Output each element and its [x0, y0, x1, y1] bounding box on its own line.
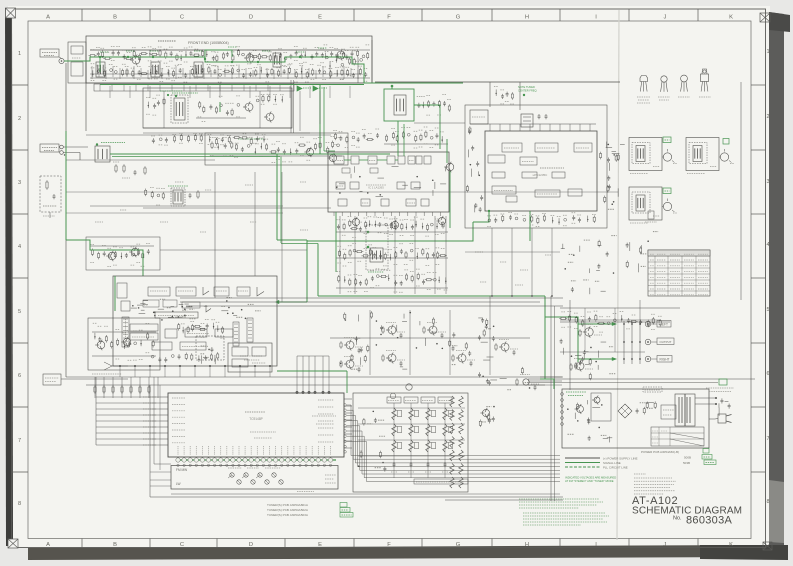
keypad switch S3: [258, 473, 262, 477]
transistor package outline 2SK117: [661, 76, 667, 82]
green line PLL bottom exit: [473, 211, 489, 222]
green drop to power PCB: [540, 317, 545, 379]
right section bias cluster upper: [560, 321, 670, 323]
PLL block row2 a: [492, 172, 505, 178]
phono transistor Q40: [97, 341, 105, 349]
MPX bottom edge connector dots: [119, 365, 121, 367]
components above IC1: [384, 143, 448, 145]
svg-text:LEFT: LEFT: [660, 323, 668, 327]
MPX pin hatch left: [123, 318, 128, 320]
matrix header box col1: [387, 397, 401, 403]
IC1 bottom row block 4: [406, 199, 416, 206]
front end green weave jog: [205, 50, 232, 57]
mains fuse parts: [725, 400, 729, 402]
AF amp transistor Q31: [346, 360, 354, 368]
green marker IF board: [160, 90, 182, 92]
MPX inner block VCO: [176, 287, 196, 296]
IC1 internal wire mesh: [376, 195, 384, 197]
AF field cluster A: [364, 357, 366, 361]
AM IFT transformer dashed: [171, 188, 185, 206]
front end coil L3: [194, 62, 203, 77]
PLL block row2 b: [522, 172, 537, 178]
svg-text:5: 5: [18, 309, 21, 315]
IC1 top row block 2: [351, 156, 359, 164]
svg-text:7: 7: [766, 436, 769, 442]
right vertical wires: [569, 300, 571, 390]
wire front end right drop: [371, 40, 373, 83]
output label OUTPUT: [657, 338, 674, 345]
bridge rectifier D50: [618, 404, 632, 418]
IC1 row2 block a: [342, 168, 350, 173]
svg-text:A: A: [46, 15, 50, 21]
PLL bottom parts row: [488, 219, 491, 222]
MPX buffer box: [215, 329, 233, 337]
IC1 top row block 5: [398, 156, 405, 164]
transistor package label 2SK117: [658, 96, 670, 98]
IC1 mid block c: [397, 182, 405, 189]
output jack left: [645, 321, 651, 327]
scattered annotation smudges mid-left gap: [175, 181, 184, 183]
svg-text:C: C: [180, 15, 184, 21]
corner register mark bottom-right: [763, 542, 772, 550]
wire bottom run to power: [445, 499, 563, 501]
power regulator transistor Q51: [594, 397, 600, 403]
transistor package outline 2SC2240: [681, 75, 688, 82]
keypad switch S2: [244, 473, 248, 477]
MPX internal wiring cluster: [189, 308, 194, 310]
green arrow into MPX right: [279, 301, 307, 303]
feed transistor QM3: [482, 409, 489, 416]
power input cluster: [587, 420, 590, 422]
page fold faint line: [617, 10, 619, 540]
green main signal bus to filters: [110, 153, 335, 155]
keypad right tiny labels: [325, 474, 336, 476]
power PCB variant tag green: [703, 449, 709, 454]
front end component strip lower: [90, 77, 370, 79]
svg-text:E: E: [318, 542, 322, 548]
svg-text:7: 7: [18, 438, 21, 444]
svg-text:1: 1: [18, 51, 21, 57]
svg-text:H: H: [525, 15, 529, 21]
transistor right edge Q15: [446, 163, 454, 171]
IC1 bottom row block 2: [361, 199, 370, 206]
output label LEFT: [657, 321, 671, 328]
crystal X1 box: [521, 114, 533, 127]
notes text block: [634, 473, 646, 475]
detector cluster: [210, 155, 342, 157]
bottom-left resistor bank: [94, 387, 96, 392]
PLL section outer enclosure: [465, 105, 607, 228]
reference divider box: [470, 110, 488, 124]
controller IC4 body: [168, 393, 344, 457]
green under-front-end return line: [100, 84, 364, 86]
IC4 left pin stubs and labels: [160, 396, 168, 398]
svg-text:G: G: [456, 542, 461, 548]
svg-text:FRONT END (1005B004): FRONT END (1005B004): [188, 41, 229, 45]
green feed dot oscillator: [391, 85, 394, 88]
mid bus wires: [180, 297, 563, 299]
local oscillator coil enclosure green: [384, 89, 414, 121]
AF field transistor annotations: [344, 337, 354, 339]
keypad switch S8: [279, 480, 283, 484]
green wire oscillator to PLL: [414, 105, 440, 149]
IC1 top row block 7: [416, 156, 422, 164]
PLL block ref amp: [492, 186, 516, 194]
svg-text:K: K: [729, 15, 733, 21]
svg-text:CENTER FREQ: CENTER FREQ: [518, 89, 537, 93]
lower bus wire 2: [86, 384, 545, 386]
left page-edge shadow: [5, 8, 13, 546]
front end title text: [158, 40, 176, 42]
wire antenna AM to loop coil: [63, 146, 88, 148]
right page-edge shadow: [769, 12, 784, 558]
svg-text:RIGHT: RIGHT: [660, 358, 670, 362]
decoupling capacitor column: [564, 268, 566, 270]
svg-text:F: F: [387, 15, 391, 21]
IC1 top row block 8: [424, 156, 431, 164]
central column parts rows lower: [336, 287, 448, 289]
driver transistor Q9: [131, 248, 139, 256]
left vertical bus wire: [65, 63, 67, 377]
svg-text:NOTE TUNED: NOTE TUNED: [518, 85, 535, 89]
svg-text:3: 3: [766, 179, 769, 185]
semiconductor table: [648, 250, 710, 296]
right section vertical drops: [584, 308, 586, 352]
PLL to bus drop wires: [491, 228, 493, 296]
matrix resistor network R24: [443, 424, 448, 436]
matrix resistor network R34: [443, 440, 448, 452]
IC4 right pin circles: [344, 404, 347, 407]
IC4 interior pin name rows right: [318, 399, 334, 401]
IF component strip B: [196, 117, 246, 119]
front end mixer transistor Q3: [337, 51, 345, 59]
svg-text:No.: No.: [673, 516, 682, 522]
antenna FM terminal label: [40, 49, 59, 57]
front end internal rail 2: [90, 73, 360, 75]
detector sub-circuit enclosure: [205, 133, 348, 165]
green branch drop at C1: [99, 57, 101, 72]
MPX pilot filter bar: [155, 312, 198, 318]
detector transistor Q7: [329, 154, 336, 161]
grid tick marks bottom: [81, 539, 83, 548]
MPX op-amp A2: [257, 287, 264, 296]
matrix resistor network R22: [409, 424, 414, 436]
svg-text:8: 8: [18, 501, 21, 507]
left vertical bus wire 2: [85, 61, 87, 131]
right section rail 2: [560, 319, 660, 321]
green tag K2 lower: [663, 188, 671, 194]
IC4 interior center marks: [250, 431, 276, 433]
IC4 top pin circles: [296, 391, 299, 394]
muting transistor Q37: [523, 379, 529, 385]
green signal line front end row: [64, 57, 340, 62]
svg-text:F: F: [387, 542, 391, 548]
front end tuning gang capacitor C1: [96, 62, 105, 77]
AF amp transistor Q30: [346, 341, 354, 349]
bottom page-edge shadow: [28, 545, 770, 560]
keypad switch S5: [237, 480, 241, 484]
green short vertical in IF board: [219, 102, 221, 112]
matrix resistor network R12: [409, 408, 414, 420]
IC1 green top row links: [344, 159, 351, 161]
IF board bus second line: [86, 134, 331, 136]
svg-text:A: A: [46, 542, 50, 548]
green bus into IC1 top row: [335, 153, 390, 155]
matrix resistor network R11: [392, 408, 397, 420]
keypad switch S6: [251, 480, 255, 484]
MPX op-amp A3: [206, 305, 211, 312]
IC1 row2 block b: [370, 168, 378, 173]
svg-text:FM MW: FM MW: [176, 468, 187, 472]
matrix header box col2: [404, 397, 418, 403]
green connector arrow B: [313, 86, 318, 91]
grid tick marks top: [81, 9, 83, 21]
MPX small box 2: [121, 301, 130, 311]
output jack mid: [645, 339, 651, 345]
svg-text:IC 1 LA1265: IC 1 LA1265: [368, 186, 384, 190]
clock sub-board box: [228, 343, 272, 372]
power transformer T50: [675, 394, 695, 426]
MPX pin hatch right: [234, 323, 238, 325]
svg-text:D: D: [249, 542, 253, 548]
MPX matrix bar 1: [130, 324, 158, 331]
svg-text:LW: LW: [176, 482, 181, 486]
green line into driver stage: [66, 240, 143, 276]
PLL block LPF: [488, 155, 505, 163]
IC4 interior pin name rows left: [172, 397, 185, 399]
IC1 top row block 6: [408, 156, 415, 164]
transistor below IC1 QB: [391, 221, 398, 228]
keypad left feed wires: [153, 377, 155, 464]
transistor package outline 2SC2670: [640, 76, 648, 82]
green signal run to power area: [318, 295, 545, 297]
green drop wires into IC1 top: [397, 121, 399, 156]
green PLL loop top run: [307, 222, 473, 241]
matrix resistor network R14: [443, 408, 448, 420]
central column parts rows mid: [336, 257, 448, 259]
power input green note: [566, 391, 586, 393]
power inner sub-box: [591, 393, 611, 421]
legend line PLL circuit: [565, 466, 600, 468]
MPX op-amp A1: [203, 287, 209, 295]
PLL IC3 body: [485, 131, 597, 211]
keypad top edge small pin circles: [177, 464, 179, 466]
MPX output row box 2: [180, 342, 206, 350]
audio out transistor Q21: [576, 362, 584, 370]
IC4 bottom pin circles green row: [176, 459, 336, 461]
warning text paragraph 2: [523, 512, 605, 514]
corner register mark bottom-left: [8, 539, 18, 548]
transistor package label 2SC2670: [637, 96, 650, 98]
green vertical from antenna bus: [65, 131, 67, 240]
PLL right side components: [612, 153, 620, 155]
matrix resistor network R21: [392, 424, 397, 436]
front end coil L4: [273, 53, 281, 67]
wire front end to IF drops: [219, 83, 221, 98]
matrix row bus wires: [358, 407, 465, 409]
AF field cluster B: [452, 333, 455, 335]
wire front end drops to IF board: [109, 86, 111, 98]
IFT transformer dashed box: [171, 95, 188, 123]
svg-text:500B: 500B: [684, 456, 691, 460]
transistor package label 2SD400: [699, 96, 711, 98]
svg-text:K: K: [729, 542, 733, 548]
svg-text:uPC1235C: uPC1235C: [533, 173, 549, 177]
MPX inner block phase det: [237, 287, 250, 296]
green tag K2 left: [663, 137, 671, 143]
keypad switch S4: [272, 473, 276, 477]
green vertical pair from signal bus: [276, 154, 278, 240]
IFT detail drawing K right: [686, 138, 719, 171]
green power feed: [540, 379, 554, 389]
IF sub-board enclosure: [143, 88, 292, 128]
PLL block prog divider: [520, 157, 537, 165]
svg-text:D: D: [249, 15, 253, 21]
local oscillator coil: [394, 95, 406, 115]
matrix driver transistor QM1: [406, 384, 412, 390]
transistor below IC1 QC: [438, 217, 445, 224]
wires below keypad: [171, 493, 560, 495]
transistor package label 2SC2240: [678, 96, 690, 98]
green PLL loop vertical pair: [306, 240, 308, 302]
grid tick marks left: [12, 84, 29, 86]
discriminator coil: [370, 248, 383, 262]
green dot AM coil: [96, 143, 98, 145]
svg-text:H: H: [525, 542, 529, 548]
wire antenna FM to front end: [64, 60, 86, 62]
svg-text:SIGNAL LINE: SIGNAL LINE: [603, 461, 621, 465]
IF underside parts row: [152, 139, 155, 141]
IF amp transistor Q4: [245, 103, 253, 111]
matrix resistor network R31: [392, 440, 397, 452]
feed parts cluster: [486, 406, 491, 408]
wire staircase bundle IC4 outputs: [347, 405, 560, 456]
phono transistor Q41: [123, 338, 131, 346]
MPX input stage box: [117, 283, 127, 298]
matrix right resistor ladder col B: [459, 396, 464, 407]
voltage selector green tag: [719, 379, 727, 385]
band switch sub-box: [68, 42, 86, 83]
right section rail: [560, 307, 680, 309]
AF amp transistor Q33: [388, 354, 396, 362]
key matrix enclosure: [353, 393, 468, 492]
green jog to PLL loop pair: [277, 239, 307, 241]
green tag K right: [723, 139, 729, 145]
right page-edge lighter lower part: [769, 480, 784, 543]
oscillator trimmer cluster: [417, 104, 420, 106]
svg-text:2: 2: [18, 116, 21, 122]
matrix driver transistor QM2: [390, 393, 396, 399]
IFT coil T1: [174, 98, 185, 120]
voltage selector label: [706, 387, 734, 389]
IC1 mid block d: [411, 182, 420, 189]
green line to right output jack: [578, 358, 612, 360]
IF board bottom rail: [143, 127, 292, 129]
matrix bottom capacitor row: [393, 463, 396, 465]
green power branch vertical: [545, 296, 578, 362]
svg-text:OUTPUT: OUTPUT: [660, 340, 672, 344]
svg-text:6: 6: [766, 371, 769, 377]
svg-text:TUNER(S) PCB A3054A503A: TUNER(S) PCB A3054A503A: [267, 513, 309, 517]
svg-text:C: C: [180, 542, 184, 548]
svg-text:8: 8: [766, 499, 769, 505]
matrix header box col4: [438, 397, 452, 403]
power mid capacitor cluster: [636, 409, 639, 411]
PLL IC3 label: [540, 167, 564, 169]
green label AM IFT: [168, 185, 188, 187]
MPX decoder PCB enclosure: [113, 276, 277, 366]
antenna AM terminal label: [40, 144, 59, 152]
wire detector to bus v2: [254, 172, 256, 276]
components above IC1 left: [334, 134, 336, 138]
antenna AM input jacks: [60, 145, 64, 149]
corner register mark top-right: [760, 13, 770, 22]
corner register mark top-left: [6, 8, 16, 18]
wires jacks to labels: [651, 323, 657, 325]
svg-text:TC9148P: TC9148P: [249, 417, 262, 421]
matrix resistor network R32: [409, 440, 414, 452]
IC4 right inner label: [312, 415, 336, 417]
MPX low-pass box: [185, 329, 207, 337]
IC1 mid block b: [350, 182, 359, 189]
AC adaptor dashed enclosure: [40, 176, 61, 212]
bottom-right corner shadow: [700, 545, 788, 560]
matrix column bus wires: [393, 403, 395, 478]
wire matrix feed vertical pair: [550, 296, 552, 501]
rail drop at G column: [489, 82, 491, 107]
right page-edge shadow top cap: [769, 12, 790, 32]
phono labels: [92, 373, 122, 375]
power jumper table: [651, 427, 704, 446]
AM tuning resistor pairs: [115, 166, 117, 171]
IC1 top row block 4: [387, 156, 395, 164]
MPX matrix bar 2: [130, 333, 158, 340]
discriminator dashed box: [366, 225, 388, 270]
MPX inner block divider: [214, 287, 229, 296]
central column parts rows upper: [336, 231, 448, 233]
IF board lower rail: [143, 132, 310, 134]
svg-text:J: J: [664, 542, 667, 548]
wire AM row horizontals: [66, 159, 215, 161]
svg-text:J: J: [664, 15, 667, 21]
matrix header box col3: [421, 397, 435, 403]
transistor below IC1 QA: [352, 218, 359, 225]
PLL block det out: [535, 190, 560, 197]
wire IF right vertical pair: [290, 80, 292, 133]
output contact bars: [623, 321, 625, 364]
green label IFT: [172, 92, 198, 94]
PLL block phase detector: [502, 143, 522, 152]
front end green micro labels: [100, 51, 109, 53]
K2 lower extra part: [648, 211, 654, 219]
power regulator transistor Q50: [577, 406, 584, 413]
green marker detector: [238, 138, 264, 140]
PLL block charge pump: [535, 143, 558, 152]
crystal load capacitors: [538, 115, 541, 117]
right mid small cluster: [640, 253, 647, 255]
svg-text:4: 4: [766, 242, 769, 248]
wire IF risers: [299, 91, 301, 131]
svg-text:TUNER(S) PCB A3054A801A: TUNER(S) PCB A3054A801A: [267, 503, 309, 507]
power feed bus wires: [540, 376, 562, 378]
MPX second row boxes: [143, 300, 159, 307]
IC4 left wire bundle: [96, 396, 160, 398]
green right side path: [446, 139, 448, 163]
svg-text:TUNER(S) PCB A3054A502A: TUNER(S) PCB A3054A502A: [267, 508, 309, 512]
front end component strip upper: [90, 49, 370, 51]
svg-text:INDICATED VOLTAGES ARE MEASURE: INDICATED VOLTAGES ARE MEASURED: [565, 476, 616, 480]
green line MPX left edge: [114, 276, 116, 311]
